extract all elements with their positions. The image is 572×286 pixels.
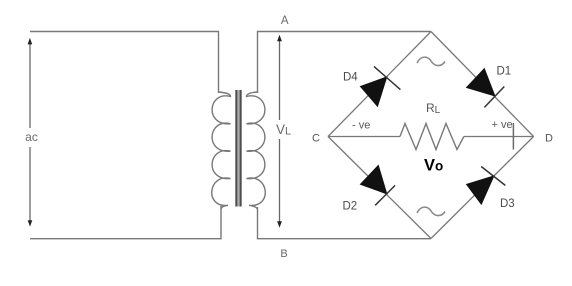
svg-text:D4: D4 bbox=[343, 71, 358, 83]
svg-text:+ ve: + ve bbox=[492, 119, 513, 131]
diode D1 bbox=[467, 69, 505, 108]
transformer core bbox=[236, 90, 240, 207]
wire secondary top bbox=[258, 32, 432, 94]
wire primary top bbox=[30, 32, 219, 94]
diode D2 bbox=[361, 166, 396, 206]
ac waveform symbol top bbox=[417, 57, 445, 65]
svg-text:D: D bbox=[545, 133, 553, 145]
svg-text:VL: VL bbox=[276, 122, 291, 138]
VL measurement arrow bbox=[277, 35, 282, 228]
polarity tick near D bbox=[512, 123, 514, 150]
svg-text:- ve: - ve bbox=[352, 119, 370, 131]
wire C to RL bbox=[328, 136, 400, 138]
wire primary bottom bbox=[30, 205, 221, 239]
svg-text:D1: D1 bbox=[497, 66, 512, 78]
wire bridge edge B-D bbox=[431, 137, 534, 239]
wire bridge edge C-B bbox=[328, 137, 431, 239]
transformer secondary winding bbox=[247, 92, 266, 209]
diode D4 bbox=[361, 67, 401, 107]
svg-text:ac: ac bbox=[25, 130, 38, 144]
svg-text:RL: RL bbox=[426, 101, 441, 116]
svg-text:D3: D3 bbox=[500, 198, 515, 210]
wire RL to D bbox=[464, 136, 534, 138]
ac source arrow bbox=[28, 38, 33, 227]
svg-text:B: B bbox=[280, 248, 287, 260]
wire secondary bottom bbox=[258, 207, 432, 239]
transformer primary winding bbox=[212, 92, 231, 209]
diode D3 bbox=[467, 167, 506, 205]
ac waveform symbol bottom bbox=[417, 207, 445, 215]
svg-text:Vo: Vo bbox=[424, 157, 443, 175]
resistor RL bbox=[400, 124, 464, 150]
wire bridge edge A-D bbox=[431, 32, 534, 137]
svg-text:A: A bbox=[281, 15, 289, 27]
svg-text:D2: D2 bbox=[343, 201, 358, 213]
wire bridge edge C-A bbox=[328, 32, 431, 137]
svg-text:C: C bbox=[312, 133, 320, 145]
